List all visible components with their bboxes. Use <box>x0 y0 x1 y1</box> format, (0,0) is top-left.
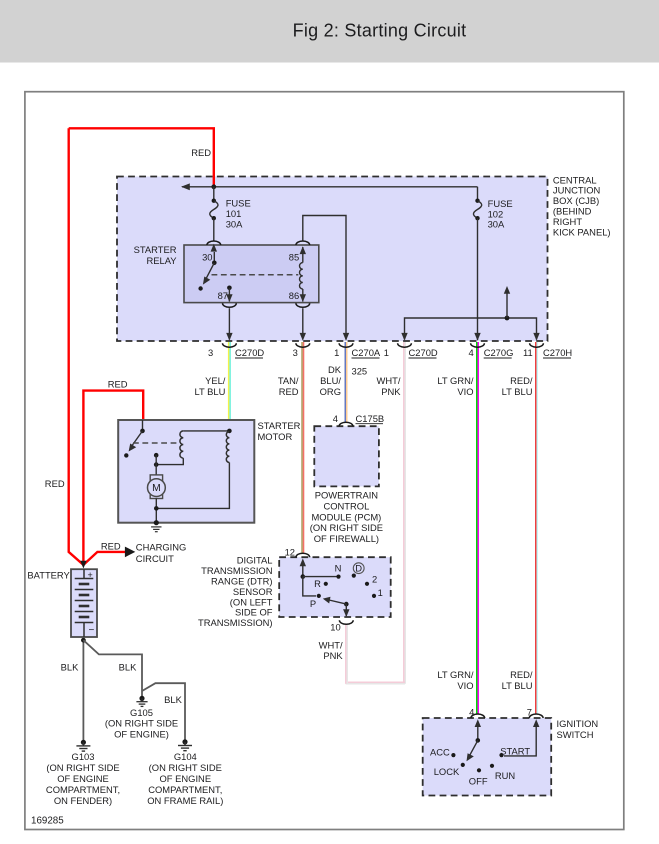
ignition contact ACC <box>451 753 455 757</box>
svg-text:OF ENGINE): OF ENGINE) <box>114 728 169 739</box>
svg-text:RED: RED <box>191 147 211 158</box>
svg-text:RUN: RUN <box>495 770 515 781</box>
svg-text:ACC: ACC <box>430 747 450 758</box>
svg-text:RED/: RED/ <box>510 375 533 386</box>
relay K: starter relay box <box>184 245 319 303</box>
DTR contact 2 <box>365 582 369 586</box>
svg-text:85: 85 <box>289 251 299 262</box>
svg-text:TRANSMISSION: TRANSMISSION <box>201 565 272 576</box>
label G105 text <box>105 707 178 740</box>
DTR contact R <box>324 582 328 586</box>
wire YEL/LT BLU (C270D-3 to starter motor) <box>229 342 231 420</box>
relay pin 30 connector <box>207 241 221 245</box>
svg-text:POWERTRAIN: POWERTRAIN <box>315 490 378 501</box>
CJB label <box>553 174 611 237</box>
label FUSE 101 30A <box>226 198 251 230</box>
starter case ground <box>151 520 161 532</box>
svg-text:LT BLU: LT BLU <box>502 386 533 397</box>
wire: contact to motor <box>155 455 157 476</box>
svg-text:BATTERY: BATTERY <box>27 570 70 581</box>
ignition contact OFF <box>477 768 481 772</box>
wire: motor to ground <box>155 499 157 523</box>
svg-text:4: 4 <box>468 347 473 358</box>
connector C270D pin 3 (TAN/RED) <box>293 343 310 358</box>
svg-text:(ON RIGHT SIDE: (ON RIGHT SIDE <box>46 762 119 773</box>
svg-text:CONTROL: CONTROL <box>323 501 369 512</box>
svg-text:R: R <box>314 578 321 589</box>
arrow: into battery positive <box>80 561 86 569</box>
label DK BLU/ORG <box>320 364 342 397</box>
svg-text:86: 86 <box>289 290 299 301</box>
svg-text:1: 1 <box>334 347 339 358</box>
ground G104 <box>178 739 192 750</box>
wire: pin 4 to wiper pivot <box>477 725 479 741</box>
svg-text:30: 30 <box>202 251 212 262</box>
connector C270A pin 1 <box>334 343 381 358</box>
svg-text:WHT/: WHT/ <box>319 639 343 650</box>
svg-text:ORG: ORG <box>320 386 341 397</box>
svg-text:3: 3 <box>293 347 298 358</box>
svg-text:10: 10 <box>330 621 340 632</box>
svg-text:Fig 2: Starting Circuit: Fig 2: Starting Circuit <box>293 21 467 41</box>
connector C270D pin 3 (YEL/LT BLU) <box>208 343 264 358</box>
svg-text:COMPARTMENT,: COMPARTMENT, <box>46 784 120 795</box>
label STARTER MOTOR <box>258 420 301 442</box>
svg-text:LT BLU: LT BLU <box>502 680 533 691</box>
ground G105 <box>136 696 147 707</box>
node: red feed / bus junction <box>211 184 216 189</box>
wire: starter top bus <box>183 430 229 432</box>
svg-text:MOTOR: MOTOR <box>258 431 293 442</box>
svg-text:30A: 30A <box>226 219 243 230</box>
ignition contact START <box>499 753 503 757</box>
svg-text:M: M <box>152 483 161 494</box>
svg-text:12: 12 <box>285 547 295 558</box>
svg-text:4: 4 <box>469 707 474 718</box>
svg-text:G104: G104 <box>174 751 197 762</box>
starter solenoid switch <box>124 420 145 458</box>
svg-text:C270G: C270G <box>484 347 514 358</box>
svg-text:OF ENGINE: OF ENGINE <box>160 773 212 784</box>
svg-text:PNK: PNK <box>323 650 343 661</box>
svg-text:C270H: C270H <box>543 347 572 358</box>
svg-text:C270A: C270A <box>352 347 381 358</box>
svg-text:ON FENDER): ON FENDER) <box>54 795 112 806</box>
svg-text:RIGHT: RIGHT <box>553 216 582 227</box>
label LT GRN/VIO <box>437 375 474 397</box>
fuse F101 30A <box>210 187 218 241</box>
svg-text:CENTRAL: CENTRAL <box>553 174 597 185</box>
node: YEL/LT BLU entry <box>227 429 232 434</box>
svg-text:START: START <box>500 746 530 757</box>
svg-text:LT BLU: LT BLU <box>194 386 225 397</box>
svg-text:G105: G105 <box>130 707 153 718</box>
wire: common to P contact <box>303 577 316 596</box>
svg-text:TRANSMISSION): TRANSMISSION) <box>198 617 272 628</box>
wire: CJB internal bus (C270D1 to C270H11) <box>405 318 537 340</box>
svg-text:7: 7 <box>527 707 532 718</box>
label LT GRN/VIO (ignition leg) <box>437 669 474 691</box>
svg-text:RED: RED <box>279 386 299 397</box>
svg-text:G103: G103 <box>72 751 95 762</box>
svg-text:OF FIREWALL): OF FIREWALL) <box>314 533 379 544</box>
node: bus junction <box>505 316 510 321</box>
label YEL/LT BLU <box>194 375 225 397</box>
svg-text:RED: RED <box>108 378 128 389</box>
connector C175B pin 4 <box>333 413 384 426</box>
DTR pin 10 connector <box>330 620 353 632</box>
wire: battery negative to G103 <box>82 637 84 741</box>
wire: RED battery to left riser <box>69 128 84 565</box>
svg-text:CHARGING: CHARGING <box>136 541 187 552</box>
svg-text:DIGITAL: DIGITAL <box>237 555 273 566</box>
wire: pin 86 to CJB bottom <box>302 308 304 339</box>
svg-text:(ON RIGHT SIDE: (ON RIGHT SIDE <box>310 522 383 533</box>
svg-text:D: D <box>355 563 362 574</box>
svg-text:OF ENGINE: OF ENGINE <box>57 773 109 784</box>
svg-text:SENSOR: SENSOR <box>233 586 273 597</box>
wire: pin 85 up and over to C270A <box>303 216 346 340</box>
svg-text:BLK: BLK <box>61 661 79 672</box>
svg-text:C270D: C270D <box>409 347 438 358</box>
svg-text:STARTER: STARTER <box>258 420 301 431</box>
label TAN/RED <box>278 375 299 397</box>
arrow: bus feed indicator <box>506 290 508 318</box>
svg-text:−: − <box>89 625 95 636</box>
svg-text:LT GRN/: LT GRN/ <box>437 669 474 680</box>
svg-text:C270D: C270D <box>235 347 264 358</box>
svg-text:BLK: BLK <box>119 661 137 672</box>
svg-text:SWITCH: SWITCH <box>557 729 594 740</box>
svg-text:1: 1 <box>384 347 389 358</box>
digital transmission range (DTR) sensor box <box>279 557 391 617</box>
ground G103 <box>76 740 90 751</box>
DTR contact 1 <box>372 594 376 598</box>
svg-text:101: 101 <box>226 208 242 219</box>
svg-text:BLK: BLK <box>164 694 182 705</box>
svg-text:LOCK: LOCK <box>434 766 460 777</box>
svg-text:LT GRN/: LT GRN/ <box>437 375 474 386</box>
svg-text:YEL/: YEL/ <box>205 375 226 386</box>
svg-text:ON FRAME RAIL): ON FRAME RAIL) <box>147 795 223 806</box>
label FUSE 102 30A <box>488 198 513 229</box>
starter pull-in coil (left) <box>156 431 183 465</box>
svg-text:IGNITION: IGNITION <box>557 718 599 729</box>
svg-text:STARTER: STARTER <box>134 244 177 255</box>
label CHARGING CIRCUIT <box>136 541 187 564</box>
motor M1 <box>148 475 166 499</box>
wire: common to N contact <box>303 576 339 578</box>
wire: CJB internal top bus <box>182 186 478 188</box>
svg-text:MODULE (PCM): MODULE (PCM) <box>312 511 382 522</box>
wire WHT/PNK (C270D-1 to DTR-10) <box>346 342 406 684</box>
ignition contact RUN <box>490 764 494 768</box>
svg-text:BOX (CJB): BOX (CJB) <box>553 195 599 206</box>
arrow left on top bus <box>181 183 190 190</box>
node: battery negative junction <box>81 638 86 643</box>
svg-text:FUSE: FUSE <box>226 198 251 209</box>
svg-text:P: P <box>310 598 316 609</box>
svg-text:OFF: OFF <box>469 775 488 786</box>
label IGNITION SWITCH <box>557 718 599 740</box>
relay pin 87 bottom connector <box>223 303 237 307</box>
svg-text:4: 4 <box>333 413 338 424</box>
relay fixed contact <box>198 286 202 290</box>
central junction box (CJB) <box>117 177 548 342</box>
page border frame <box>25 92 624 830</box>
svg-text:30A: 30A <box>488 219 505 230</box>
svg-text:RED: RED <box>45 478 65 489</box>
DTR contact N <box>336 575 340 579</box>
relay switch arm (30 to 87) <box>213 252 215 263</box>
wire: battery negative to G105 <box>83 640 142 697</box>
svg-text:COMPARTMENT,: COMPARTMENT, <box>148 784 222 795</box>
svg-text:RANGE (DTR): RANGE (DTR) <box>211 575 272 586</box>
DTR contact D (circled) <box>352 574 356 578</box>
wire: pin 87 to CJB bottom <box>228 308 230 339</box>
wire LT GRN/VIO (C270G-4 to ignition switch) <box>477 342 479 714</box>
label G103 text <box>46 751 120 806</box>
svg-text:RED: RED <box>101 540 121 551</box>
wire TAN/RED (C270D-3 to DTR-12) <box>302 342 304 553</box>
wire: branch to G104 <box>142 683 185 740</box>
ignition pin 4 connector <box>469 707 485 727</box>
svg-text:1: 1 <box>378 587 383 598</box>
svg-text:87: 87 <box>218 290 228 301</box>
header bar <box>0 0 659 63</box>
node: motor feed contact <box>154 453 159 458</box>
label STARTER RELAY <box>134 244 178 266</box>
starter internal dashed link <box>133 442 181 444</box>
DTR pin 12 connector <box>285 547 310 567</box>
svg-text:PNK: PNK <box>381 386 401 397</box>
svg-text:KICK PANEL): KICK PANEL) <box>553 226 611 237</box>
connector C270D pin 1 (WHT/PNK) <box>384 343 438 358</box>
DTR wiper arm <box>323 597 350 617</box>
svg-text:DK: DK <box>328 364 342 375</box>
svg-text:CIRCUIT: CIRCUIT <box>136 553 174 564</box>
svg-text:BLU/: BLU/ <box>320 375 341 386</box>
connector C270G pin 4 <box>468 343 513 358</box>
node: DTR common junction <box>301 574 306 579</box>
svg-text:N: N <box>335 562 342 573</box>
ignition contact LOCK <box>461 763 465 767</box>
battery <box>71 569 97 637</box>
wire: pin 7 to START contact <box>504 725 536 756</box>
DTR contact P <box>317 594 321 598</box>
svg-text:11: 11 <box>523 347 533 358</box>
svg-text:(ON RIGHT SIDE: (ON RIGHT SIDE <box>149 762 222 773</box>
label PCM text <box>310 490 383 544</box>
arrow: to charging circuit <box>125 547 135 558</box>
wire RED/LT BLU (C270H-11 to ignition switch) <box>536 342 538 714</box>
label RED/LT BLU <box>502 375 533 397</box>
svg-text:VIO: VIO <box>457 680 473 691</box>
fuse F102 30A <box>473 187 481 341</box>
relay pin 87 stub <box>227 286 232 291</box>
node: motor negative junction <box>154 506 159 511</box>
svg-text:169285: 169285 <box>31 816 64 827</box>
svg-text:+: + <box>88 570 93 580</box>
svg-text:325: 325 <box>352 365 368 376</box>
relay coil (85-86) <box>302 247 304 263</box>
svg-text:(ON LEFT: (ON LEFT <box>230 596 273 607</box>
svg-text:C175B: C175B <box>356 413 385 424</box>
svg-text:2: 2 <box>372 573 377 584</box>
svg-text:SIDE OF: SIDE OF <box>235 607 273 618</box>
label G104 text <box>147 751 223 806</box>
relay internal dashed link <box>212 274 299 276</box>
svg-text:3: 3 <box>208 347 213 358</box>
relay pin 86 bottom connector <box>296 303 310 307</box>
starter hold-in coil (right) <box>156 432 229 509</box>
connector C270H pin 11 <box>523 343 572 358</box>
powertrain control module (PCM) box <box>314 426 379 486</box>
svg-text:(ON RIGHT SIDE: (ON RIGHT SIDE <box>105 718 178 729</box>
node: coil/motor junction <box>154 462 159 467</box>
relay pin 85 connector <box>296 241 310 245</box>
wire: RED battery to starter motor <box>83 391 143 565</box>
label RED/LT BLU (ignition leg) <box>502 669 533 691</box>
wire: pin 12 to common <box>302 564 304 577</box>
label WHT/PNK (DTR leg) <box>319 639 344 661</box>
svg-text:VIO: VIO <box>457 386 473 397</box>
wire DK BLU/ORG (C270A-1 to PCM) <box>345 342 347 422</box>
wire: RED charging circuit branch <box>83 552 126 565</box>
label WHT/PNK <box>377 375 402 397</box>
wire: RED battery feed to CJB (top) <box>69 128 214 187</box>
ignition switch box <box>423 718 552 796</box>
svg-text:RED/: RED/ <box>510 669 533 680</box>
starter motor box <box>118 420 254 523</box>
svg-text:RELAY: RELAY <box>146 255 177 266</box>
svg-text:TAN/: TAN/ <box>278 375 299 386</box>
svg-text:WHT/: WHT/ <box>377 375 401 386</box>
ignition switch arm <box>470 740 478 755</box>
label DTR sensor text <box>198 555 273 629</box>
ignition pin 7 connector <box>527 707 543 727</box>
